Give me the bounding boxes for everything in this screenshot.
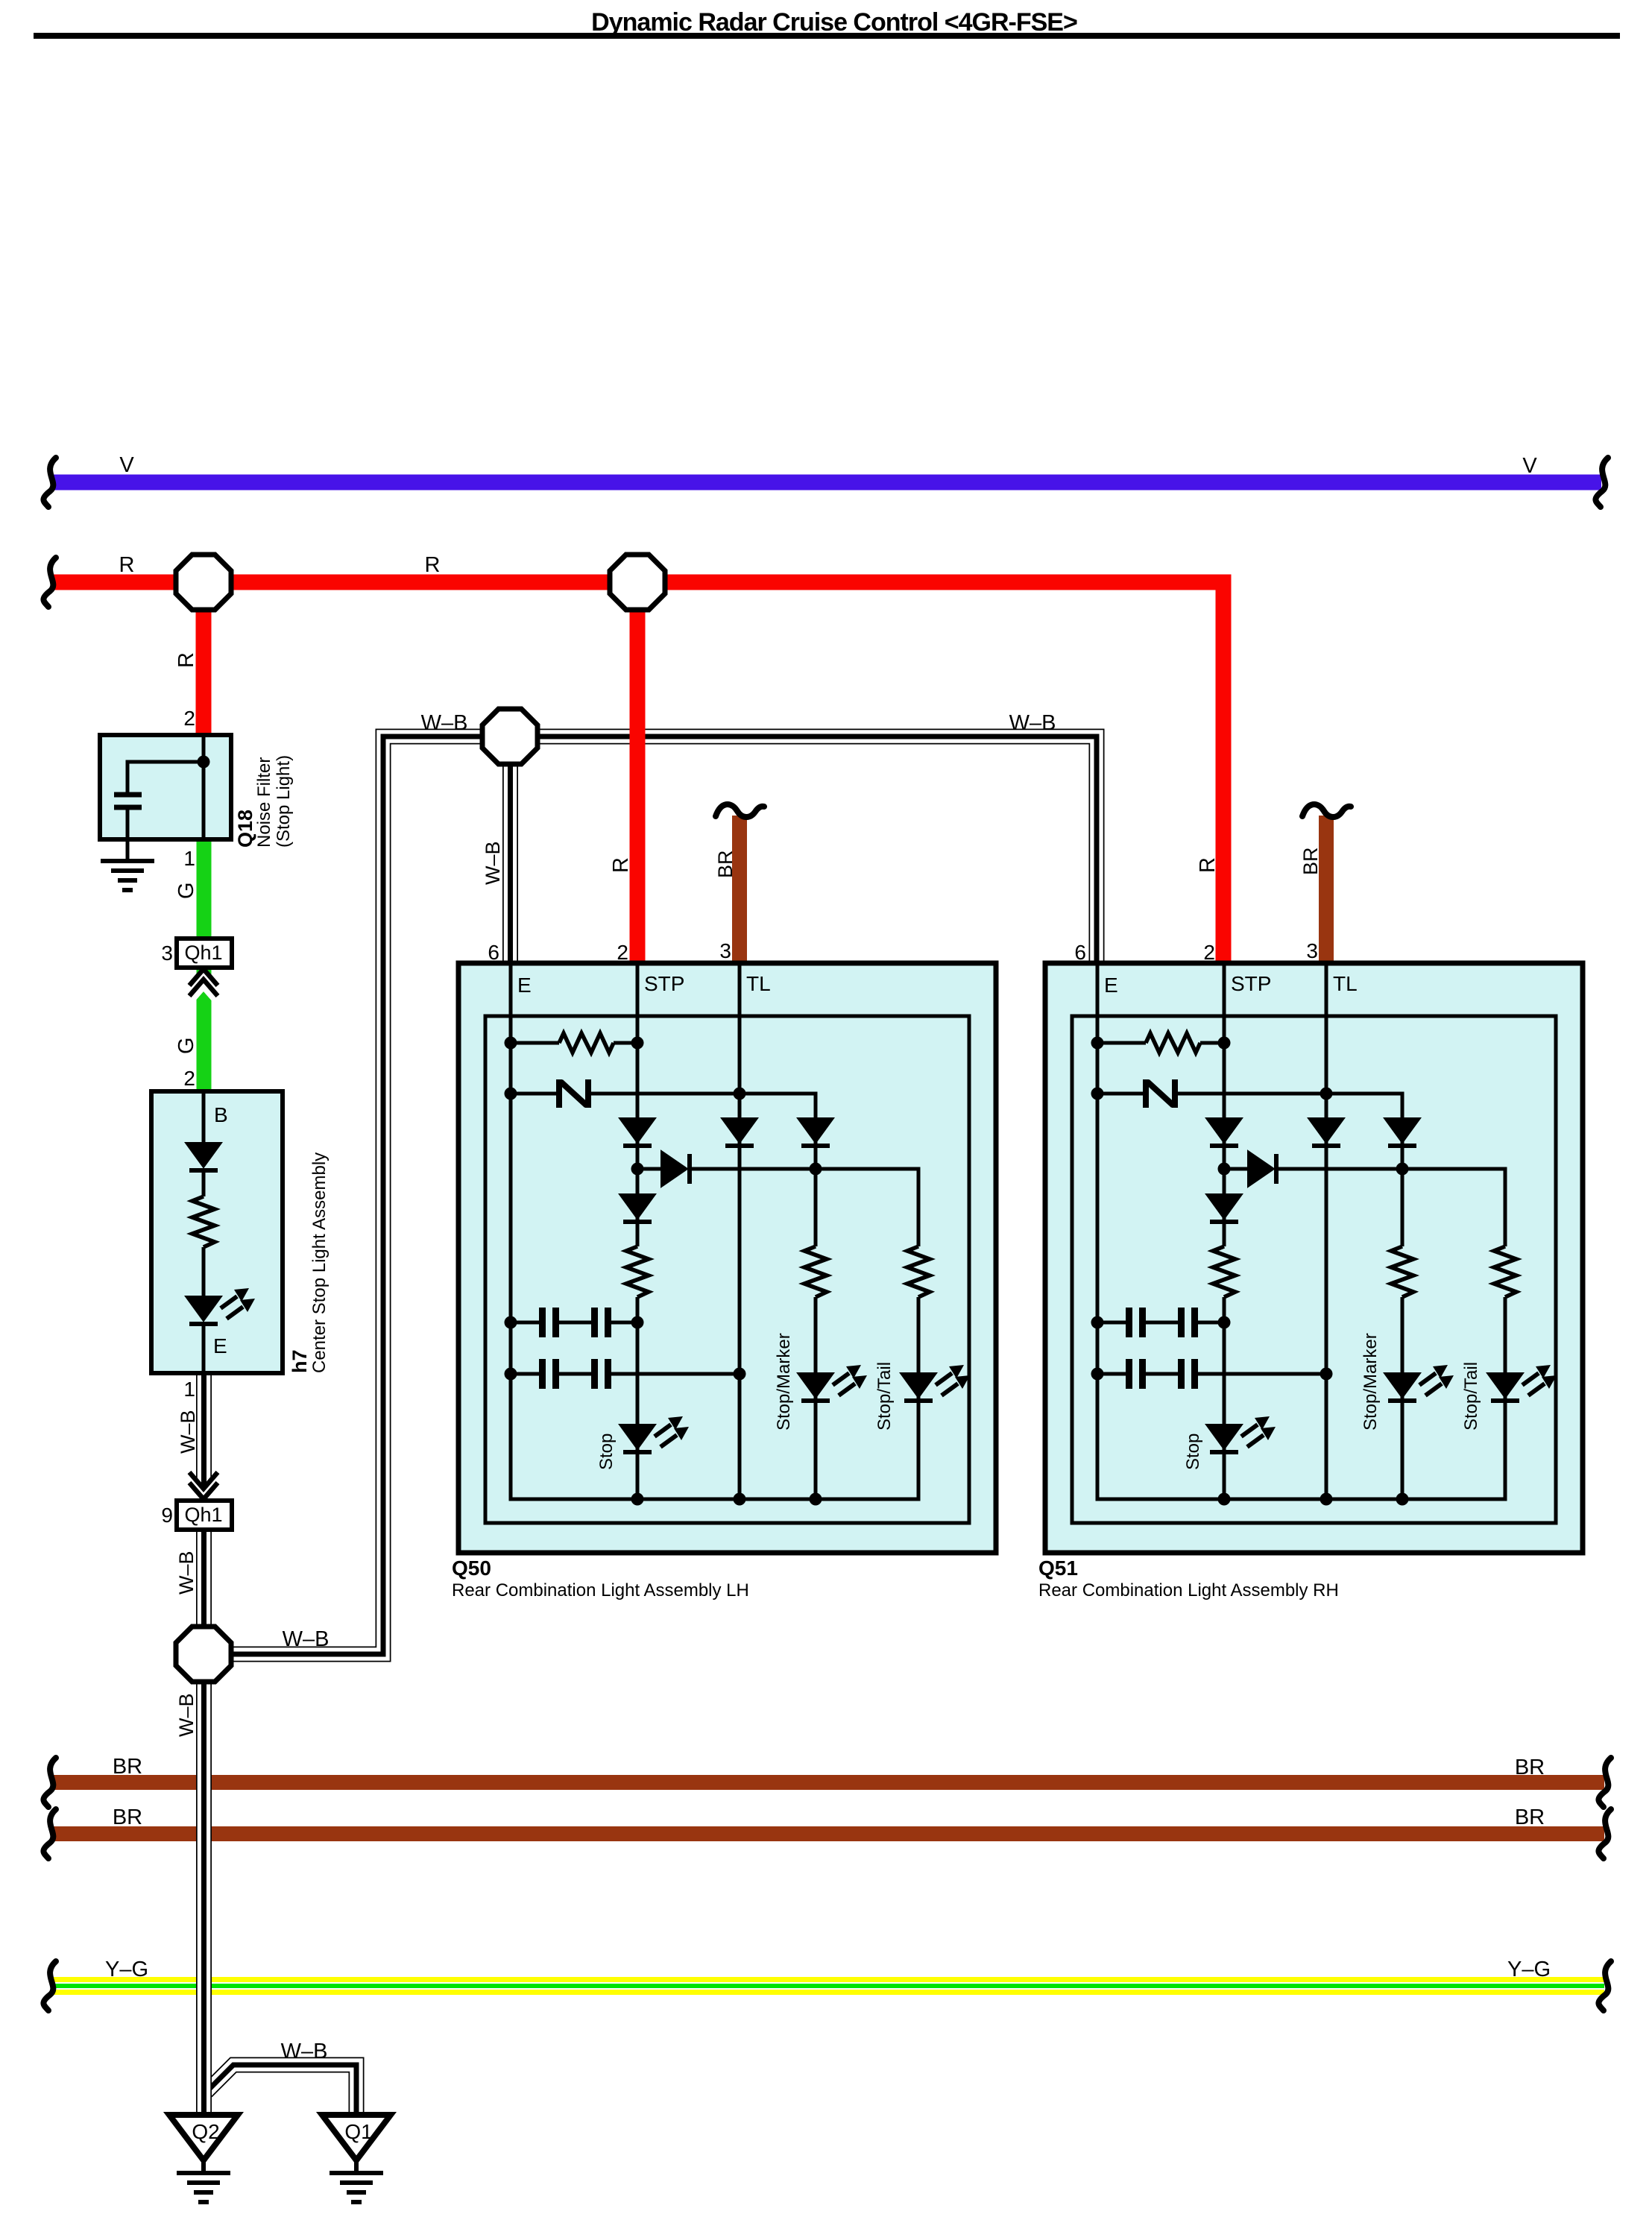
svg-text:Qh1: Qh1 <box>184 942 222 964</box>
diode on STP line in Q50 <box>619 1118 655 1146</box>
svg-text:STP: STP <box>1231 972 1271 995</box>
svg-text:R: R <box>425 553 441 577</box>
svg-text:Q1: Q1 <box>344 2120 372 2143</box>
svg-text:W–B: W–B <box>421 711 468 735</box>
LED Stop/Tail in Q50 <box>901 1365 970 1401</box>
svg-text:3: 3 <box>719 939 731 962</box>
LED Stop in Q51 <box>1206 1416 1276 1452</box>
inner case box of Q50 <box>485 1016 969 1523</box>
wire Y-G horizontal <box>52 1977 1604 1995</box>
wire inside Q18 from pin 2 to pin 1 <box>202 737 206 837</box>
svg-text:Stop/Tail: Stop/Tail <box>874 1362 895 1431</box>
wire BR upper horizontal <box>52 1775 1604 1790</box>
svg-text:W–B: W–B <box>177 1410 199 1454</box>
title underline rule <box>34 33 1620 39</box>
resistor on STP line in Q50 <box>626 1246 649 1297</box>
svg-text:1: 1 <box>183 847 195 870</box>
svg-text:BR: BR <box>113 1805 142 1829</box>
svg-text:2: 2 <box>1203 941 1215 964</box>
component Q50 Rear Combination Light Assembly LH box <box>458 963 996 1553</box>
ground point Q2 triangle <box>169 2115 238 2160</box>
svg-text:R: R <box>609 857 633 873</box>
svg-text:Rear Combination Light Assembl: Rear Combination Light Assembly LH <box>452 1580 749 1600</box>
svg-text:TL: TL <box>746 972 771 995</box>
svg-text:Y–G: Y–G <box>1507 1958 1551 1981</box>
wire STP bus of Q51 <box>1223 965 1226 1246</box>
svg-text:W–B: W–B <box>482 841 504 885</box>
node junction inside Q18 <box>198 756 210 769</box>
svg-text:V: V <box>119 453 134 477</box>
coupling diode row in Q51 <box>1224 1167 1248 1171</box>
svg-text:Center Stop Light Assembly: Center Stop Light Assembly <box>309 1152 330 1373</box>
second diode on STP line in Q51 <box>1206 1194 1242 1222</box>
break symbol right end of V wire <box>1595 458 1608 507</box>
svg-text:9: 9 <box>161 1504 173 1527</box>
svg-text:2: 2 <box>183 1067 195 1090</box>
svg-text:R: R <box>174 652 198 668</box>
resistor inside h7 <box>192 1196 215 1247</box>
wire E bus and bottom bus of Q51 <box>1097 965 1505 1499</box>
wire BR stub into Q51 TL pin 3 <box>1319 816 1334 965</box>
bottom bus junctions of Q50 <box>631 1493 644 1506</box>
wire from capacitor to ground <box>126 810 130 861</box>
svg-text:1: 1 <box>183 1378 195 1401</box>
resistor between E and STP in Q51 <box>1097 1041 1146 1045</box>
break symbol left end of V wire <box>43 458 56 507</box>
svg-text:BR: BR <box>1515 1805 1545 1829</box>
resistor on branch 4 in Q51 <box>1391 1246 1413 1297</box>
ground point Q1 triangle <box>322 2115 391 2160</box>
wire TL bus of Q50 <box>738 965 742 1499</box>
LED Stop in Q50 <box>619 1416 689 1452</box>
splice on W-B wire near Q50 pin 6 <box>482 709 537 764</box>
svg-text:Stop: Stop <box>1183 1434 1203 1470</box>
resistor on STP line in Q51 <box>1213 1246 1235 1297</box>
wire branch 4 of Q50 <box>814 1297 818 1499</box>
svg-text:6: 6 <box>1074 941 1086 964</box>
connector mating chevrons above Qh1 pin 9 <box>187 1475 220 1494</box>
wire inside h7 from B to diode <box>202 1094 206 1143</box>
svg-text:BR: BR <box>1515 1756 1545 1779</box>
wire STP bus of Q50 <box>636 965 640 1246</box>
svg-text:(Stop Light): (Stop Light) <box>274 755 294 848</box>
svg-text:Q51: Q51 <box>1038 1557 1078 1580</box>
second diode on STP line in Q50 <box>619 1194 655 1222</box>
svg-text:Dynamic Radar Cruise Control <: Dynamic Radar Cruise Control <4GR-FSE> <box>591 8 1077 37</box>
svg-text:Q18: Q18 <box>234 810 256 848</box>
svg-text:E: E <box>1104 974 1118 997</box>
svg-text:G: G <box>174 1037 198 1054</box>
break symbol above Q51 TL wire <box>1302 804 1351 817</box>
svg-text:E: E <box>213 1334 227 1357</box>
svg-text:BR: BR <box>1299 847 1322 875</box>
svg-text:G: G <box>174 882 198 899</box>
capacitor inside Q18 <box>114 792 142 798</box>
svg-text:2: 2 <box>183 707 195 730</box>
svg-text:R: R <box>1196 857 1220 873</box>
wire LED to pin E <box>202 1324 206 1371</box>
ground symbol below Q2 <box>201 2160 206 2174</box>
wire TL bus of Q51 <box>1325 965 1328 1499</box>
wire R stub from splice down to Q18 pin 2 <box>196 582 212 738</box>
break symbols BR and Y-G wire ends <box>43 1758 56 1807</box>
LED Stop/Marker in Q50 <box>798 1365 867 1401</box>
connector Qh1 pin 3 box <box>177 939 232 968</box>
resistor between E and STP in Q50 <box>511 1041 559 1045</box>
svg-text:W–B: W–B <box>1009 711 1056 735</box>
svg-text:E: E <box>517 974 532 997</box>
svg-text:V: V <box>1522 454 1537 478</box>
svg-text:Q2: Q2 <box>192 2120 219 2143</box>
diode on TL line in Q51 <box>1308 1118 1344 1146</box>
svg-text:6: 6 <box>488 941 499 964</box>
coupling diode row in Q50 <box>637 1167 661 1171</box>
diode on STP line in Q51 <box>1206 1118 1242 1146</box>
connector Qh1 pin 9 box <box>177 1501 232 1530</box>
component Q51 Rear Combination Light Assembly RH box <box>1045 963 1583 1553</box>
svg-text:Q50: Q50 <box>452 1557 491 1580</box>
wire R from splice down to Q50 STP pin 2 <box>630 582 646 965</box>
diode on branch 4 in Q51 <box>1384 1118 1420 1146</box>
break symbol left end of R wire <box>43 558 56 607</box>
svg-text:W–B: W–B <box>175 1693 198 1737</box>
wire R horizontal with corner down to Q51 STP <box>54 582 1223 965</box>
wire W-B from h7 pin 1 down through Qh1 and splice to ground Q2 <box>196 1373 212 2115</box>
ground symbol below Q1 <box>354 2160 359 2174</box>
bottom bus junctions of Q51 <box>1218 1493 1231 1506</box>
svg-text:Noise Filter: Noise Filter <box>254 757 274 848</box>
wire W-B from splice right and up to rear combination lights <box>228 737 1097 1654</box>
connector mating chevrons below Qh1 <box>187 974 220 993</box>
LED Stop/Tail in Q51 <box>1487 1365 1557 1401</box>
svg-text:h7: h7 <box>289 1349 311 1373</box>
wire resistor to LED <box>202 1247 206 1296</box>
wire W-B stub into Q50 pin 6 <box>502 737 518 965</box>
splice on W-B ground wire <box>176 1627 231 1682</box>
resistor on branch 5 in Q50 <box>907 1246 930 1297</box>
svg-text:Stop: Stop <box>596 1434 617 1470</box>
LED Stop inside h7 <box>186 1288 255 1324</box>
svg-text:W–B: W–B <box>283 1627 330 1651</box>
wire BR stub into Q50 TL pin 3 <box>732 816 747 965</box>
svg-text:Y–G: Y–G <box>105 1958 148 1981</box>
svg-text:2: 2 <box>617 941 628 964</box>
svg-text:Stop/Marker: Stop/Marker <box>1361 1333 1381 1431</box>
resistor on branch 4 in Q50 <box>804 1246 827 1297</box>
wire V horizontal <box>54 475 1601 491</box>
component h7 Center Stop Light Assembly box <box>151 1091 283 1373</box>
svg-text:W–B: W–B <box>281 2040 328 2063</box>
component Q18 Noise Filter (Stop Light) box <box>100 735 231 839</box>
wire E bus and bottom bus of Q50 <box>511 965 918 1499</box>
diode on TL line in Q50 <box>722 1118 757 1146</box>
resistor on branch 5 in Q51 <box>1494 1246 1516 1297</box>
svg-text:BR: BR <box>714 850 737 878</box>
svg-text:R: R <box>119 553 135 577</box>
svg-text:TL: TL <box>1333 972 1358 995</box>
splice on R wire above Q18 <box>176 555 231 610</box>
svg-text:Qh1: Qh1 <box>184 1504 222 1526</box>
diode inside h7 <box>186 1143 221 1170</box>
svg-text:BR: BR <box>113 1755 142 1779</box>
svg-text:B: B <box>214 1103 228 1126</box>
wire inside Q18 to capacitor <box>127 762 204 792</box>
break symbol above Q50 TL wire <box>716 804 764 817</box>
wire G from Q18 pin 1 to h7 pin 2 through connector Qh1 <box>197 836 212 1091</box>
surge absorber in Q51 <box>1097 1092 1144 1096</box>
surge absorber in Q50 <box>511 1092 558 1096</box>
capacitor row 1 in Q51 <box>1097 1321 1126 1325</box>
capacitor row 2 in Q50 <box>511 1372 539 1376</box>
svg-text:3: 3 <box>161 942 173 965</box>
svg-text:3: 3 <box>1306 939 1318 962</box>
capacitor row 2 in Q51 <box>1097 1372 1126 1376</box>
wire BR lower horizontal <box>52 1826 1604 1841</box>
inner case box of Q51 <box>1072 1016 1556 1523</box>
ground symbol of Q18 <box>101 861 154 890</box>
svg-text:Stop/Marker: Stop/Marker <box>774 1333 794 1431</box>
wire diode to resistor <box>202 1170 206 1196</box>
svg-text:W–B: W–B <box>175 1551 198 1595</box>
capacitor row 1 in Q50 <box>511 1321 539 1325</box>
svg-text:STP: STP <box>644 972 684 995</box>
wire branch 4 of Q51 <box>1401 1297 1404 1499</box>
LED Stop/Marker in Q51 <box>1384 1365 1454 1401</box>
svg-text:Rear Combination Light Assembl: Rear Combination Light Assembly RH <box>1038 1580 1339 1600</box>
splice on R wire above Q50 <box>610 555 665 610</box>
wire W-B branch to ground Q1 <box>206 2065 356 2115</box>
svg-text:Stop/Tail: Stop/Tail <box>1461 1362 1481 1431</box>
diode on branch 4 in Q50 <box>798 1118 833 1146</box>
